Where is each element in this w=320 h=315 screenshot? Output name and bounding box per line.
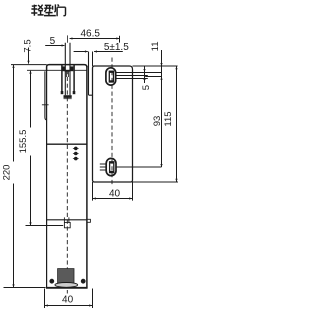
body center dashed line (66, 70, 68, 287)
key tip dark bar (64, 95, 72, 98)
svg-text:5: 5 (141, 85, 152, 90)
conduit gland (58, 269, 74, 283)
ext line bottom (4, 287, 46, 289)
dim 46.5 line (70, 38, 120, 40)
body bottom edge (46, 287, 88, 289)
right 40 dim line (93, 198, 132, 200)
svg-text:5: 5 (50, 36, 56, 47)
bottom slot screw lines (100, 164, 162, 170)
dim 155.5 line (30, 71, 32, 225)
key inner stubs (67, 71, 69, 77)
dim 11/93 line (161, 50, 163, 167)
dim 5 top line (45, 45, 64, 47)
svg-text:11: 11 (150, 41, 161, 51)
conduit tray ellipse (55, 283, 78, 288)
plate bottom ext right (133, 181, 179, 183)
dim 5 right line (144, 66, 146, 83)
slot dark fills (62, 66, 73, 71)
marker screws group (73, 147, 79, 160)
head top edge (47, 65, 87, 71)
svg-text:40: 40 (62, 295, 74, 306)
bottom 40 ext lines (45, 289, 93, 309)
svg-text:7.5: 7.5 (23, 39, 34, 52)
bottom screw left (50, 279, 54, 283)
dim 115 line (176, 66, 178, 182)
body seam 2 (47, 219, 87, 221)
seam 2 ticks (64, 217, 69, 222)
tick on left edge (42, 104, 49, 106)
head cover lip (45, 71, 47, 120)
slot right wall (73, 65, 75, 94)
body seam 1 (47, 143, 87, 145)
bottom slot inner rect (110, 162, 114, 173)
svg-text:115: 115 (163, 111, 174, 126)
ext line 155.5 bottom (26, 225, 64, 227)
key center line (66, 35, 68, 42)
title 轻型门 glyph 轻 (31, 5, 43, 16)
head top extension line (11, 64, 47, 66)
slot left wall (61, 65, 63, 94)
slot wall feet (61, 91, 76, 94)
svg-text:40: 40 (109, 188, 121, 199)
svg-text:155.5: 155.5 (18, 130, 29, 154)
plate center dashed line (111, 58, 113, 187)
title 轻型门 glyph 型 (44, 4, 56, 15)
right 40 ext lines (93, 182, 133, 201)
dim 220 line (13, 65, 15, 287)
right edge knob (87, 219, 91, 222)
svg-text:220: 220 (1, 165, 12, 181)
dim 5±1.5 lines (74, 51, 88, 53)
door plate outline (93, 66, 133, 182)
bottom slot obround (106, 158, 116, 175)
center line dash below bottom (66, 290, 68, 294)
svg-text:93: 93 (152, 116, 163, 127)
plate left ext up (92, 52, 94, 67)
top slot obround (106, 68, 116, 85)
title 轻型门 glyph 门 (57, 4, 65, 16)
dim 46.5 right ext tick (119, 36, 121, 43)
small center rectangle below seam 2 (64, 222, 70, 227)
hole center ext (145, 76, 161, 78)
dim 7.5 line (28, 48, 30, 64)
svg-text:46.5: 46.5 (80, 29, 100, 40)
plate top ext right (133, 65, 178, 67)
key tip underline (64, 98, 72, 100)
actuator key outer lines (65, 43, 70, 95)
body left edge (46, 70, 48, 288)
top slot inner rect (109, 71, 113, 82)
bottom 40 dim line (45, 305, 92, 307)
top slot screw lines (116, 73, 162, 79)
bottom screw right (81, 279, 85, 283)
head joint line with extension (27, 69, 87, 71)
svg-text:5±1.5: 5±1.5 (104, 42, 129, 53)
door surface line (89, 52, 93, 96)
body right edge (86, 66, 88, 288)
